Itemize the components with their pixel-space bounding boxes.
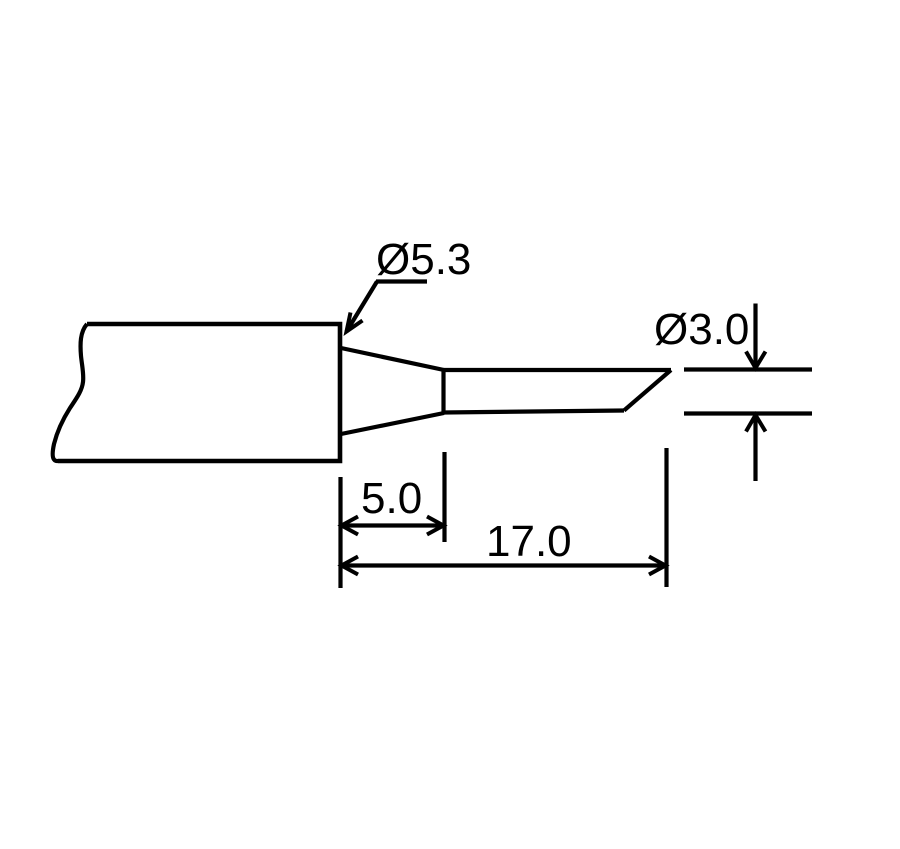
svg-text:Ø3.0: Ø3.0 bbox=[654, 305, 749, 354]
Ø3.0 up arrow shaft bbox=[753, 416, 757, 481]
dimension line 5.0 bbox=[342, 523, 443, 527]
arrowhead 5.0 right bbox=[427, 517, 444, 535]
arrowhead 5.0 left bbox=[342, 517, 359, 535]
leader arrowhead bbox=[347, 313, 363, 332]
body break line (wavy left edge) bbox=[53, 324, 87, 461]
body outline (top, right, bottom edges) bbox=[58, 324, 340, 461]
arrowhead 17.0 left bbox=[342, 557, 359, 575]
taper top line bbox=[341, 348, 444, 370]
svg-text:5.0: 5.0 bbox=[361, 474, 422, 523]
extension line left (x=340) bbox=[338, 477, 342, 588]
extension line middle (x=444) bbox=[442, 452, 446, 542]
leader line to taper bbox=[347, 282, 378, 332]
taper bottom line bbox=[341, 413, 444, 434]
extension line right (x=666) bbox=[664, 448, 668, 587]
tip bottom edge bbox=[444, 411, 625, 413]
tip bevel edge bbox=[624, 370, 671, 411]
svg-text:Ø5.3: Ø5.3 bbox=[376, 235, 471, 284]
Ø3.0 dimension upper line bbox=[684, 367, 812, 371]
svg-text:17.0: 17.0 bbox=[486, 517, 572, 566]
taper joint vertical line bbox=[441, 369, 445, 414]
tip top edge bbox=[444, 368, 672, 372]
arrowhead 17.0 right bbox=[649, 557, 666, 575]
dimension line 17.0 bbox=[342, 563, 665, 567]
leader underline for Ø5.3 bbox=[376, 279, 427, 283]
Ø3.0 up arrowhead bbox=[746, 415, 766, 432]
Ø3.0 down arrowhead bbox=[746, 352, 766, 369]
Ø3.0 dimension lower line bbox=[684, 411, 812, 415]
Ø3.0 down arrow shaft bbox=[753, 304, 757, 368]
